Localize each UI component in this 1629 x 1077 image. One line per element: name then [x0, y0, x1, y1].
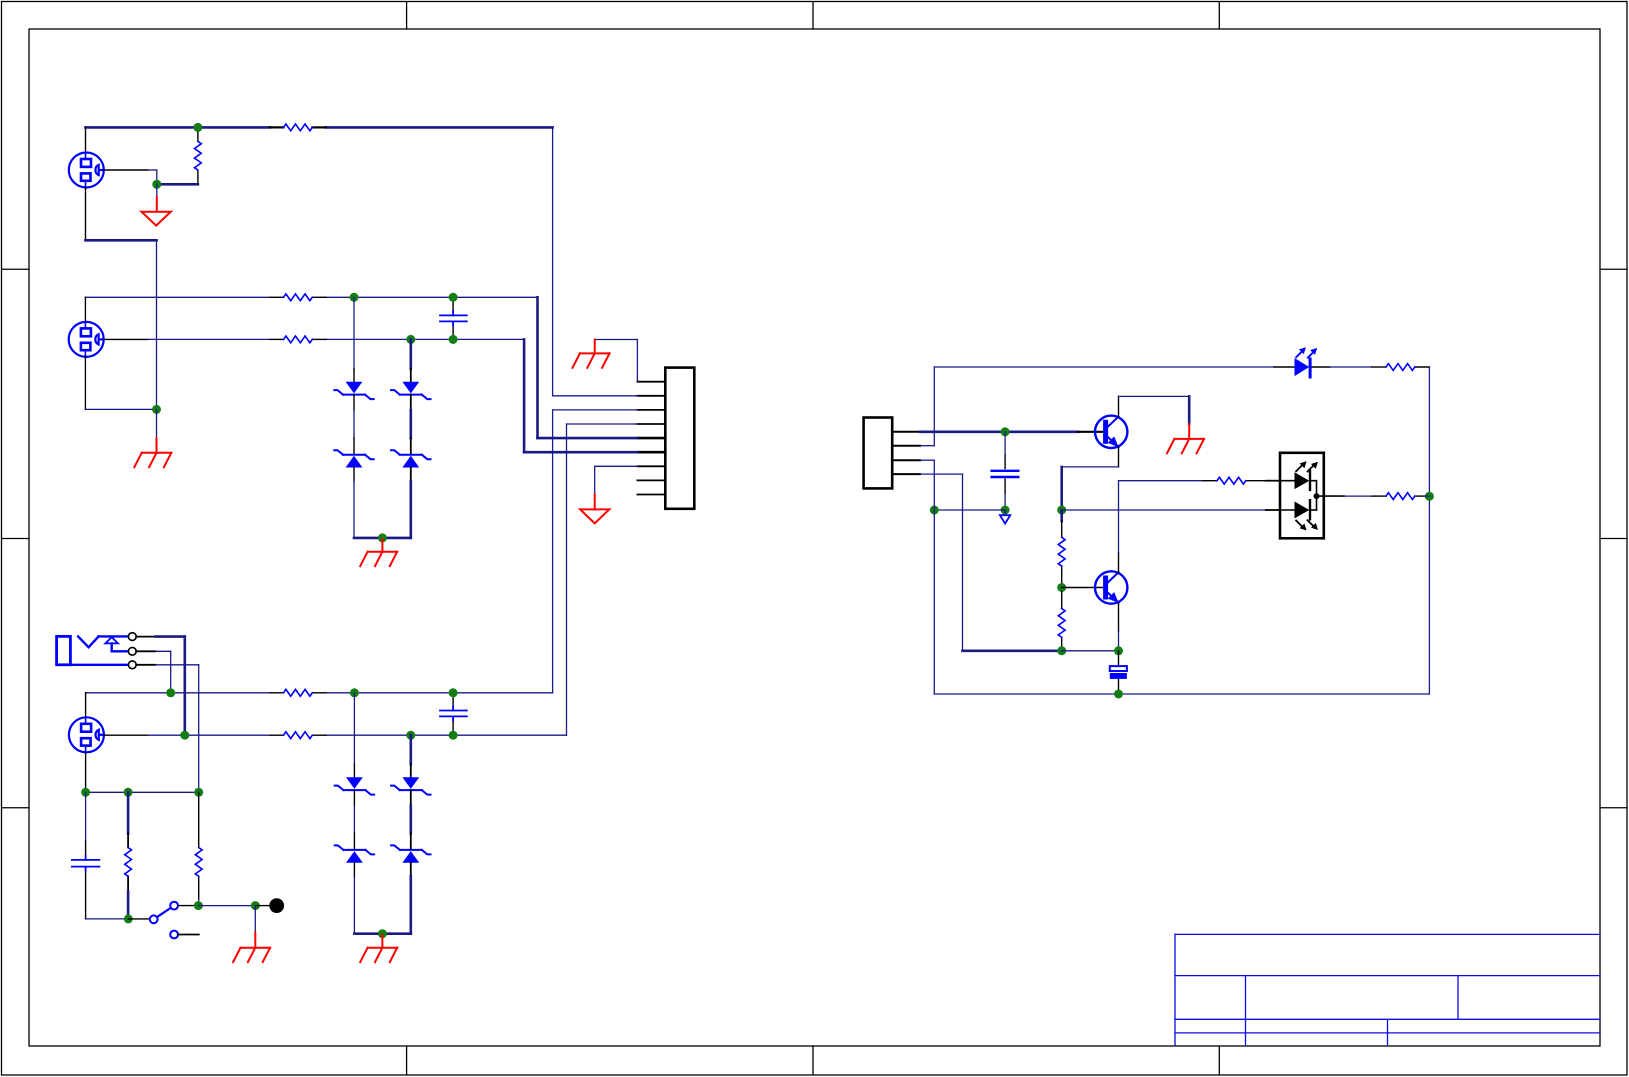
- wire net N5 row2: [148, 338, 524, 340]
- capacitor C5 wire bottom: [1004, 494, 1006, 511]
- optocoupler U1 pin stubs: [1266, 481, 1280, 510]
- junction dot (128.3,918.9): [124, 914, 133, 923]
- junction dot (170.7,692.8): [166, 688, 175, 697]
- CONN4 pin4 wire: [567, 424, 638, 735]
- zener D1 lead: [353, 369, 355, 382]
- zener D7: [391, 777, 430, 794]
- resistor R4: [284, 336, 313, 343]
- wire net N14 (C to D): [1062, 650, 1119, 652]
- resistor R3 leads: [270, 296, 326, 298]
- wire net N1 top (thick): [86, 126, 553, 129]
- resistor R12: [1217, 477, 1246, 484]
- zener D5 column wire top: [353, 693, 355, 764]
- capacitor C1: [440, 311, 467, 326]
- wire net N19 end: [1425, 495, 1429, 497]
- capacitor C4: [72, 856, 100, 871]
- capacitor C3 leads: [452, 693, 454, 735]
- junction dot (156.5,409.4): [152, 405, 161, 414]
- ground GND7 (chassis, red): [233, 933, 270, 963]
- zener D6 bottom lead: [353, 863, 355, 877]
- CONN3 right pin lead: [104, 734, 148, 736]
- wire jack pin3: [156, 665, 199, 793]
- junction dot (1005.1,431.8): [1001, 427, 1010, 436]
- capacitor C5: [992, 471, 1019, 477]
- Q1 emitter net thick down: [1060, 467, 1063, 510]
- junction dot (453.1,339.4): [449, 335, 458, 344]
- connector CONN1: [69, 153, 104, 188]
- resistor R10: [1058, 609, 1065, 638]
- junction dot (156.8,184.3): [152, 180, 161, 189]
- zener join wire (thick): [354, 537, 411, 540]
- jack J1 pin circles: [128, 633, 136, 669]
- switch SW1 throw1 lead: [178, 905, 195, 907]
- junction dot (1005.1,510): [1001, 506, 1010, 515]
- wire net N16 mid: [1330, 366, 1372, 368]
- ground GND8 (open triangle, blue): [1000, 515, 1010, 523]
- ground GND4 (chassis, red): [573, 340, 610, 368]
- junction dot B (1061.7,587.5): [1057, 583, 1066, 592]
- wire net N9 row3: [86, 791, 199, 793]
- CONN4 pin1 wire: [595, 340, 638, 382]
- wire net N2: [148, 170, 157, 184]
- junction dot (453.1,297.3): [449, 293, 458, 302]
- CONN4 pin6 wire (thick): [524, 451, 637, 454]
- CONN2 bottom lead: [84, 357, 86, 410]
- junction dot (453.1,692.8): [449, 688, 458, 697]
- optocoupler U1 body: [1280, 453, 1324, 539]
- zener D1-D2 link: [353, 395, 355, 411]
- resistor R8 wire bottom: [198, 899, 200, 906]
- junction dot (128.1,792.3): [124, 788, 133, 797]
- U2 pin4 wire: [920, 474, 962, 651]
- wire jack pin2: [156, 651, 171, 693]
- zener D7-D8 link: [410, 790, 412, 806]
- CONN4 pin3 wire: [553, 410, 638, 693]
- Q1 collector net: [1119, 395, 1190, 397]
- CONN3 bottom lead: [85, 752, 87, 792]
- capacitor C4 wire top: [85, 792, 87, 841]
- terminal TP1 (solid dot): [269, 898, 284, 913]
- resistor R1: [284, 124, 313, 131]
- optocoupler U1 LED B arrows: [1296, 520, 1318, 530]
- Q2 emitter net: [1118, 631, 1120, 651]
- wire jack pin1 (thick): [156, 637, 185, 736]
- ground GND9 (chassis, red): [1167, 424, 1204, 453]
- U2 pin2 wire: [920, 367, 934, 446]
- resistor R13: [1386, 493, 1415, 500]
- resistor R1 leads: [270, 126, 326, 128]
- resistor R4 leads: [270, 338, 326, 340]
- connector CONN3: [69, 717, 104, 752]
- zener D7 lead: [410, 764, 412, 777]
- resistor R9 wire bottom: [1061, 584, 1063, 588]
- zener D4 bottom lead: [410, 468, 412, 482]
- wire net N8 row2: [148, 734, 567, 736]
- junction dot D (1118.5,650.8): [1114, 646, 1123, 655]
- wire net N4 row1: [85, 296, 537, 298]
- Q2 collector lead: [1118, 552, 1120, 572]
- ground GND1 (signal ground, red): [142, 197, 171, 226]
- zener D2 bottom lead: [353, 468, 355, 482]
- optocoupler U1 common dot: [1314, 493, 1320, 499]
- resistor R9: [1058, 537, 1065, 566]
- Q2 base lead: [1062, 587, 1103, 589]
- zener D3 lead: [410, 369, 412, 382]
- resistor R9 leads: [1061, 521, 1063, 584]
- junction dot (354.4,692.8): [350, 688, 359, 697]
- junction dot (410.8,339.4): [406, 335, 415, 344]
- CONN4 pin5 wire (thick): [538, 437, 638, 440]
- optocoupler U1 LED A arrows: [1296, 461, 1318, 471]
- resistor R7 wire bottom (thick): [127, 892, 130, 919]
- jack J1 pin leads: [136, 637, 155, 665]
- jack J1: [57, 636, 129, 664]
- wire net N6: [85, 408, 156, 410]
- CONN2 right pin lead: [104, 338, 148, 340]
- resistor R3: [284, 294, 313, 301]
- header U2 body: [864, 418, 893, 489]
- zener D8: [391, 845, 430, 862]
- wire net N3 (thick): [86, 239, 157, 242]
- zener D1 column wire top: [353, 297, 355, 368]
- capacitor C3: [440, 706, 467, 721]
- capacitor C6 (polarized): [1110, 666, 1127, 679]
- junction dot (934.3,510): [930, 506, 939, 515]
- terminal TP1 lead: [255, 905, 269, 907]
- zener D8 bottom lead: [410, 863, 412, 877]
- junction dot (354,297.3): [350, 293, 359, 302]
- switch SW1: [150, 902, 178, 939]
- optocoupler U1 LED A: [1280, 470, 1317, 497]
- junction dot (382.4,933.7): [378, 929, 387, 938]
- LED1 leads: [1274, 366, 1330, 368]
- wire net N7 row1: [86, 692, 553, 694]
- junction dot (197.9,127.4): [193, 123, 202, 132]
- junction dot (453.1,735.2): [449, 731, 458, 740]
- U2 pin4 wire thick bottom: [963, 649, 1062, 652]
- ground GND6 (chassis, red): [360, 935, 397, 962]
- CONN4 pin7 wire: [595, 466, 638, 494]
- resistor R10 wire bottom: [1061, 648, 1063, 651]
- junction dot (410.8,735.2): [406, 731, 415, 740]
- ground GND8 stem: [1004, 510, 1006, 515]
- zener D1: [334, 382, 373, 399]
- junction dot (198.4,905.6): [194, 901, 203, 910]
- wire net N17 right rail: [1428, 367, 1430, 694]
- capacitor C6 wire bottom: [1118, 691, 1120, 695]
- resistor R2 vertical: [194, 141, 201, 170]
- zener D4: [391, 450, 430, 467]
- junction dot E (1118.5,694): [1114, 690, 1123, 699]
- resistor R12 leads: [1203, 480, 1266, 482]
- Q1 emitter lead: [1118, 447, 1120, 467]
- header U2 pin stubs: [892, 432, 920, 474]
- CONN1 bottom lead: [85, 188, 87, 241]
- optocoupler U1 output lead: [1317, 495, 1345, 497]
- ground GND1 stem: [156, 184, 158, 197]
- CONN4 pin stubs: [637, 382, 665, 495]
- zener D5: [335, 777, 374, 794]
- zener D2: [334, 450, 373, 467]
- Q2 collector net: [1118, 481, 1120, 553]
- connector CONN4 body: [665, 368, 694, 509]
- ground GND7 stem: [254, 906, 256, 933]
- junction dot (382.4,537.9): [378, 533, 387, 542]
- transistor Q2: [1095, 571, 1127, 603]
- resistor R10 leads: [1061, 592, 1063, 649]
- wire vertical thick to CONN4 pin5: [536, 297, 539, 438]
- connector CONN2 top lead: [84, 297, 86, 322]
- junction dot (1429.4,496.3): [1425, 492, 1434, 501]
- junction dot (85.6,792.3): [81, 788, 90, 797]
- zener D7 column wire top (thick): [409, 735, 412, 764]
- resistor R2 leads: [197, 127, 199, 184]
- wire vertical to CONN4 pin2: [552, 127, 554, 395]
- resistor R7 leads: [127, 834, 129, 892]
- capacitor C1 leads: [452, 297, 454, 339]
- resistor R8: [195, 848, 202, 877]
- wire net N15 bottom rail: [934, 693, 1429, 695]
- wire net N16 top rail: [934, 366, 1274, 368]
- optocoupler U1 LED B: [1280, 496, 1317, 520]
- wire net N10 bottom: [86, 918, 129, 920]
- resistor R6: [284, 732, 313, 739]
- resistor R13 leads: [1372, 495, 1425, 497]
- switch SW1 lead from N10: [128, 918, 150, 920]
- resistor R7 wire top (thick): [127, 792, 130, 833]
- resistor R5: [284, 689, 313, 696]
- U2 pin1 wire (thick) to Q1 base: [920, 430, 1078, 433]
- wire net N18 (Q2 collector row): [1119, 480, 1204, 482]
- capacitor C5 wire top: [1004, 432, 1006, 455]
- CONN1 right pin lead: [104, 169, 148, 171]
- zener D3: [391, 382, 430, 399]
- ground GND2 (chassis, red): [360, 539, 397, 566]
- Q1 base lead: [1078, 431, 1103, 433]
- resistor R5 leads: [270, 692, 326, 694]
- wire net N11: [198, 905, 255, 907]
- title block: [1175, 934, 1600, 1045]
- Q2 emitter lead: [1118, 603, 1120, 631]
- zener D5 lead: [353, 764, 355, 777]
- zener D3-D4 link: [410, 395, 412, 411]
- junction dot (255.3,905.6): [251, 901, 260, 910]
- LED1 (blue): [1295, 347, 1318, 378]
- ground GND3 (chassis, red): [134, 439, 171, 468]
- resistor R6 leads: [270, 734, 326, 736]
- wire net N19 (opto out): [1344, 495, 1372, 497]
- connector CONN3 top lead: [85, 693, 87, 718]
- Q1 emitter net: [1062, 466, 1119, 468]
- resistor R11 leads: [1372, 366, 1429, 368]
- U2 pin3 wire: [920, 460, 934, 694]
- connector CONN1 top lead: [85, 127, 87, 153]
- CONN4 pin2 wire: [553, 395, 638, 397]
- zener join wire bottom (thick): [354, 932, 410, 935]
- capacitor C6 leads: [1118, 651, 1120, 691]
- junction dot (184.8,735.2): [180, 731, 189, 740]
- resistor R9 wire top (thick): [1060, 510, 1063, 521]
- ground GND3 stem: [156, 409, 158, 438]
- wire net N3 vertical down to section 2: [156, 240, 158, 409]
- transistor Q1: [1095, 416, 1127, 448]
- capacitor C5 leads: [1004, 455, 1006, 494]
- resistor R7: [125, 848, 132, 877]
- switch SW1 throw2 stub: [178, 934, 199, 936]
- ground GND5 (signal ground, red): [580, 495, 609, 524]
- resistor R8 leads: [198, 792, 200, 899]
- wire net N2 thick to R2: [157, 183, 198, 186]
- zener D3 column wire top (thick): [409, 339, 412, 368]
- Q1 collector lead: [1118, 396, 1120, 417]
- zener D6: [335, 845, 374, 862]
- wire vertical thick to CONN4 pin6: [523, 339, 526, 452]
- Q1 collector net thick down: [1188, 396, 1191, 424]
- capacitor C4 leads: [85, 841, 87, 919]
- wire net N13 (A to opto): [1062, 509, 1266, 511]
- zener D5-D6 link: [353, 790, 355, 806]
- resistor R11: [1386, 364, 1415, 371]
- junction dot A (1061.7,510): [1057, 506, 1066, 515]
- wire net N12 (pin3 to cap bottom): [934, 509, 1005, 511]
- connector CONN2: [69, 322, 104, 357]
- junction dot C (1061.7,650.8): [1057, 646, 1066, 655]
- junction dot (198.7,792.3): [194, 788, 203, 797]
